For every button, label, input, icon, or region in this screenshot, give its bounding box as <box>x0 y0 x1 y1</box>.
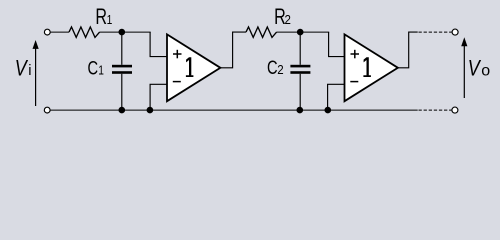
node A: R1/C1 junction <box>119 29 126 36</box>
resistor R1 <box>69 27 100 37</box>
label Vi <box>15 57 32 81</box>
wire U2 - input to bottom rail <box>328 84 345 110</box>
resistor R2 <box>246 27 277 37</box>
label R2 <box>274 6 291 30</box>
svg-text:o: o <box>481 62 490 79</box>
svg-text:2: 2 <box>277 63 284 78</box>
bottom rail wire <box>50 109 418 111</box>
node: U1 - input / bottom rail junction <box>147 107 154 114</box>
svg-text:2: 2 <box>285 12 292 27</box>
op-amp U2 (unity-gain buffer) <box>345 34 398 101</box>
U1 - input marker <box>173 81 181 83</box>
node: C1 bottom / bottom rail junction <box>119 107 126 114</box>
svg-text:1: 1 <box>107 14 113 27</box>
dashed wire to output terminal top <box>419 31 452 33</box>
dashed wire to output terminal bottom <box>419 109 452 111</box>
svg-text:V: V <box>15 57 28 81</box>
U2 gain label 1 <box>363 57 371 77</box>
wire U1 - input to bottom rail <box>150 84 167 110</box>
U2 + input marker <box>351 50 360 59</box>
capacitor C1 <box>112 32 132 110</box>
wire bend down to U1 + input <box>150 32 167 57</box>
svg-text:i: i <box>28 63 31 79</box>
wire R2 to U2 input bend <box>277 31 330 33</box>
label R1 <box>95 6 112 30</box>
capacitor C2 <box>290 32 310 110</box>
input terminal top <box>44 29 50 35</box>
wire bend down to U2 + input <box>329 32 345 57</box>
wire input terminal to R1 <box>50 31 69 33</box>
Vi voltage arrow <box>33 40 39 106</box>
wire U2 output up to top level <box>398 32 418 68</box>
U2 - input marker <box>350 81 358 83</box>
input terminal bottom <box>44 107 50 113</box>
wire R1 to U1 input bend <box>100 31 151 33</box>
Vo voltage arrow <box>461 37 467 98</box>
node: C2 bottom / bottom rail junction <box>297 107 304 114</box>
output terminal top <box>452 29 458 35</box>
label Vo <box>468 57 491 81</box>
svg-text:C: C <box>88 56 99 79</box>
U1 gain label 1 <box>186 57 194 77</box>
node: U2 - input / bottom rail junction <box>325 107 332 114</box>
svg-text:V: V <box>468 57 481 81</box>
label C1 <box>88 56 105 79</box>
node B: R2/C2 junction <box>297 29 304 36</box>
op-amp U1 (unity-gain buffer) <box>167 34 220 101</box>
svg-text:1: 1 <box>98 64 104 77</box>
label C2 <box>267 56 284 79</box>
svg-text:R: R <box>95 6 107 30</box>
svg-text:C: C <box>267 56 278 79</box>
wire U1 output up to R2 <box>220 32 246 68</box>
output terminal bottom <box>452 107 458 113</box>
U1 + input marker <box>173 50 182 59</box>
